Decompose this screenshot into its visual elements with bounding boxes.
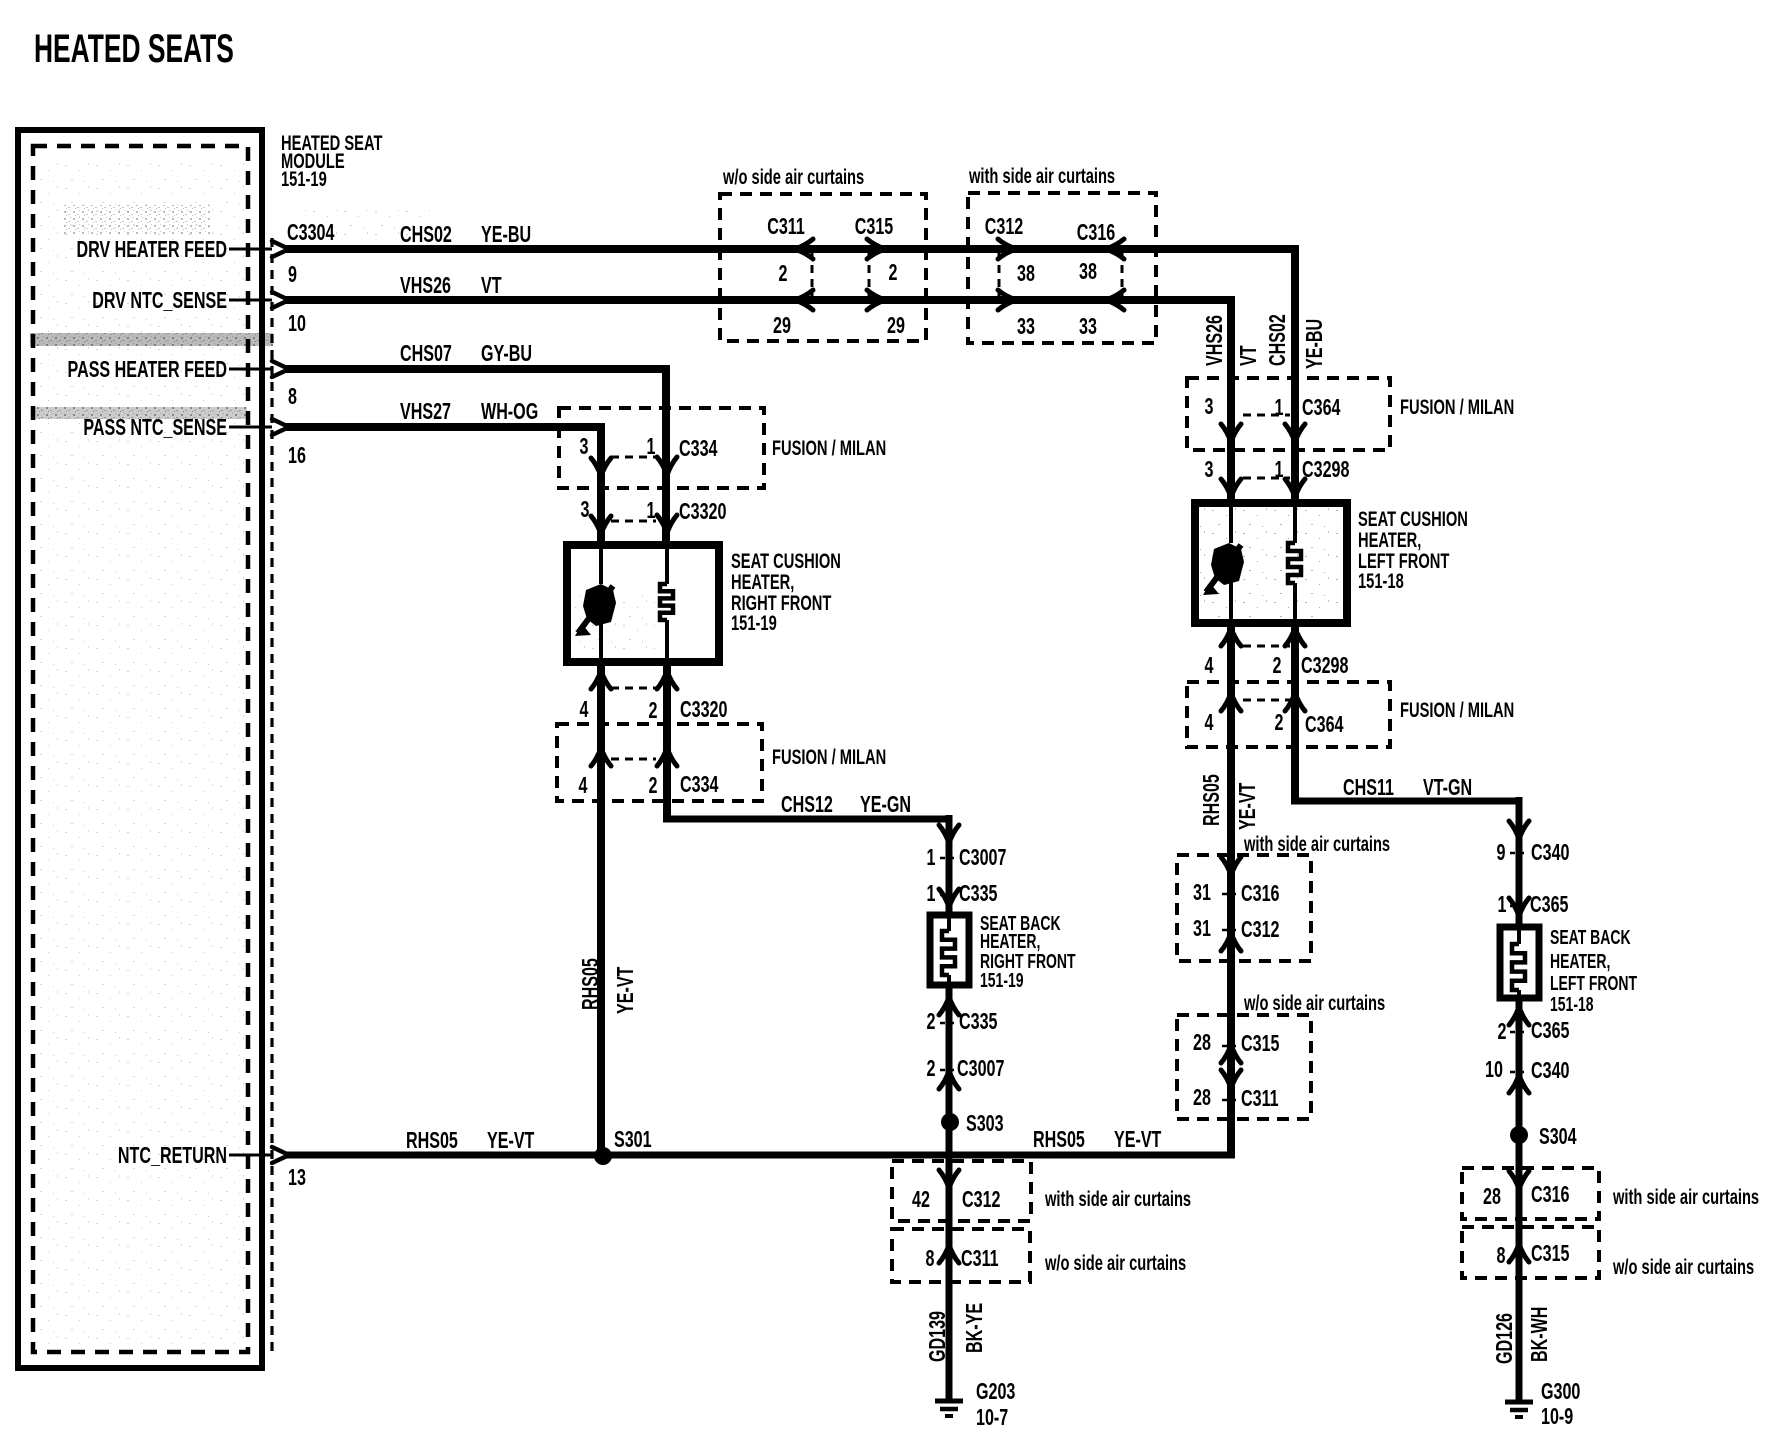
svg-text:C311: C311: [1241, 1086, 1279, 1111]
connector C315/C311 dashed box: [1177, 1015, 1311, 1119]
svg-text:2: 2: [649, 698, 658, 723]
svg-text:42: 42: [912, 1187, 930, 1212]
svg-text:1: 1: [1275, 395, 1284, 420]
connector C335 row tick (lower): [940, 1022, 958, 1025]
ground G300 label: [1541, 1379, 1580, 1429]
svg-text:C3298: C3298: [1302, 457, 1349, 482]
ground G300 symbol: [1505, 1400, 1533, 1405]
svg-text:CHS02: CHS02: [400, 222, 452, 247]
connector C315 arrow (RHS05): [1221, 1045, 1241, 1063]
connector C3007 row tick (lower): [940, 1069, 958, 1072]
connector C364 row dashes (lower): [1243, 699, 1290, 702]
svg-text:C316: C316: [1077, 220, 1115, 245]
svg-text:31: 31: [1193, 916, 1211, 941]
svg-text:WH-OG: WH-OG: [481, 399, 538, 424]
svg-text:G203: G203: [976, 1379, 1015, 1404]
svg-text:151-18: 151-18: [1550, 992, 1594, 1015]
svg-text:YE-VT: YE-VT: [487, 1128, 534, 1153]
svg-text:YE-VT: YE-VT: [613, 967, 638, 1014]
svg-text:1: 1: [1498, 892, 1507, 917]
module pin 16 PASS NTC_SENSE lead: [83, 415, 272, 440]
svg-text:C315: C315: [855, 214, 893, 239]
connector C3298 row dashes: [1243, 477, 1290, 480]
svg-text:BK-YE: BK-YE: [962, 1303, 987, 1353]
seat cushion heater LF thermistor element: [1211, 543, 1244, 585]
svg-text:YE-BU: YE-BU: [481, 222, 531, 247]
svg-text:C334: C334: [679, 436, 717, 461]
seat back heater RF wire stubs: [947, 915, 951, 931]
module label HEATED SEAT MODULE 151-19: [281, 131, 382, 190]
svg-text:C315: C315: [1241, 1031, 1279, 1056]
svg-text:RHS05: RHS05: [406, 1128, 458, 1153]
svg-text:C315: C315: [1531, 1241, 1569, 1266]
svg-text:C335: C335: [959, 881, 997, 906]
seat cushion heater left front box: [1195, 503, 1347, 623]
connector C340 row tick: [1510, 852, 1528, 855]
splice S301: [594, 1147, 612, 1165]
connector C340 arrow (upper): [1509, 821, 1529, 839]
connector C365 row tick (lower): [1510, 1031, 1528, 1034]
svg-text:151-18: 151-18: [1358, 569, 1404, 592]
connector C312 arrow (RHS05): [1221, 933, 1241, 951]
svg-text:C312: C312: [985, 214, 1023, 239]
svg-text:NTC_RETURN: NTC_RETURN: [118, 1143, 227, 1168]
svg-text:w/o side air curtains: w/o side air curtains: [1612, 1255, 1754, 1278]
scan noise bands (artifact): [30, 160, 1342, 1345]
svg-text:29: 29: [773, 313, 791, 338]
svg-text:151-19: 151-19: [980, 968, 1024, 991]
svg-text:CHS02: CHS02: [1265, 314, 1290, 366]
connector C311 arrow wire VHS26: [795, 290, 813, 310]
svg-text:4: 4: [1205, 653, 1214, 678]
connector C3298 arrow right wire: [1285, 479, 1305, 497]
connector C3298 arrow right wire (lower): [1285, 628, 1305, 646]
svg-text:C364: C364: [1302, 395, 1340, 420]
connector C334 row dashes: [611, 456, 656, 459]
connector C364 arrow left wire (lower): [1221, 693, 1241, 711]
svg-text:PASS HEATER FEED: PASS HEATER FEED: [68, 357, 227, 382]
seat cushion heater RF resistor element: [660, 584, 673, 620]
splice S303: [941, 1113, 959, 1131]
svg-text:w/o side air curtains: w/o side air curtains: [1243, 991, 1385, 1014]
wire VHS27 WH-OG vertical drop: [597, 423, 605, 547]
wire RHS05 YE-VT bottom run (NTC_RETURN): [285, 1152, 1235, 1159]
connector C316 arrow wire CHS02: [1106, 239, 1124, 259]
svg-text:G300: G300: [1541, 1379, 1580, 1404]
svg-text:28: 28: [1193, 1030, 1211, 1055]
svg-text:9: 9: [288, 262, 297, 287]
heated seat module box: [18, 130, 262, 1368]
connector C334 arrow left wire (lower): [591, 748, 611, 766]
svg-text:9: 9: [1497, 840, 1506, 865]
svg-text:2: 2: [927, 1009, 936, 1034]
seat cushion heater LF resistor element: [1288, 543, 1301, 583]
connector C3320 arrow left wire: [591, 516, 611, 534]
connector C365 arrow (lower): [1509, 1007, 1529, 1025]
svg-text:VT: VT: [1236, 345, 1261, 366]
connector C316 row tick: [1222, 893, 1240, 896]
svg-text:HEATER,: HEATER,: [1358, 528, 1421, 551]
connector C3320 arrow right wire: [657, 515, 677, 533]
label SEAT CUSHION HEATER, RIGHT FRONT 151-19: [731, 549, 841, 634]
seat cushion heater RF internal wire (right): [665, 545, 669, 584]
connector C316 dashed box (LF ground branch): [1462, 1168, 1599, 1219]
connector C335 row tick: [940, 894, 958, 897]
splice S304: [1510, 1126, 1528, 1144]
svg-text:4: 4: [580, 697, 589, 722]
svg-text:S301: S301: [614, 1127, 652, 1152]
svg-text:with side air curtains: with side air curtains: [1612, 1185, 1759, 1208]
svg-text:2: 2: [927, 1056, 936, 1081]
svg-text:LEFT FRONT: LEFT FRONT: [1550, 971, 1637, 994]
connector C340 row tick (lower): [1510, 1071, 1528, 1074]
svg-text:C316: C316: [1531, 1182, 1569, 1207]
svg-text:10: 10: [1485, 1057, 1503, 1082]
wire seat back heater RF return vertical: [946, 985, 953, 1401]
svg-text:VT-GN: VT-GN: [1423, 775, 1472, 800]
svg-text:8: 8: [288, 384, 297, 409]
svg-text:2: 2: [1275, 710, 1284, 735]
svg-text:C311: C311: [767, 214, 805, 239]
svg-text:C3320: C3320: [679, 499, 726, 524]
seat cushion heater LF internal wire (pin1-2 side): [1293, 503, 1297, 543]
svg-text:28: 28: [1193, 1085, 1211, 1110]
wire VHS26 VT horizontal run: [285, 296, 1235, 304]
connector C311 arrow (RHS05): [1221, 1070, 1241, 1088]
seat cushion heater right front box: [567, 545, 719, 662]
connector C312 row tick: [1222, 929, 1240, 932]
seat back heater LF wire stubs: [1517, 927, 1521, 944]
svg-text:RHS05: RHS05: [578, 958, 603, 1010]
connector C340 arrow (lower): [1509, 1075, 1529, 1093]
svg-text:C3007: C3007: [957, 1056, 1004, 1081]
svg-text:GD126: GD126: [1492, 1313, 1517, 1364]
wire CHS07 GY-BU vertical drop: [662, 365, 670, 547]
svg-text:2: 2: [889, 260, 898, 285]
svg-text:4: 4: [1205, 710, 1214, 735]
connector C365 row tick: [1510, 905, 1528, 908]
module pin 13 NTC_RETURN lead: [118, 1143, 272, 1168]
connector C334 arrow right wire: [657, 457, 677, 475]
svg-text:VHS26: VHS26: [400, 273, 451, 298]
connector C364 dashed box (upper, FUSION/MILAN): [1187, 378, 1390, 450]
svg-text:BK-WH: BK-WH: [1527, 1307, 1552, 1362]
wire CHS11 VT-GN vertical+horizontal run: [1291, 623, 1299, 801]
svg-text:2: 2: [1273, 653, 1282, 678]
connector C3320 row dashes (lower): [611, 687, 656, 690]
svg-text:VHS26: VHS26: [1202, 315, 1227, 366]
module pin 8 exit arrow: [272, 361, 289, 377]
svg-text:33: 33: [1079, 314, 1097, 339]
svg-text:3: 3: [1205, 457, 1214, 482]
svg-text:C365: C365: [1531, 1018, 1569, 1043]
connector C334 arrow left wire: [591, 458, 611, 476]
svg-text:C3007: C3007: [959, 845, 1006, 870]
connector C312 arrow wire VHS26: [998, 290, 1016, 310]
connector C312 arrow wire CHS02: [998, 239, 1016, 259]
svg-text:GD139: GD139: [925, 1311, 950, 1362]
svg-text:10-7: 10-7: [976, 1405, 1008, 1430]
connector C315 arrow wire CHS02: [867, 239, 885, 259]
svg-text:C312: C312: [962, 1187, 1000, 1212]
connector C3298 row dashes (lower): [1243, 645, 1290, 648]
module pin 16 exit arrow: [272, 419, 289, 435]
connector C316 boundary dash: [1121, 251, 1124, 298]
connector C335 arrow (lower): [939, 997, 959, 1015]
connector C312 boundary dash: [998, 251, 1001, 298]
svg-text:C340: C340: [1531, 840, 1569, 865]
svg-text:151-19: 151-19: [281, 167, 327, 190]
svg-text:1: 1: [927, 845, 936, 870]
svg-text:DRV NTC_SENSE: DRV NTC_SENSE: [92, 288, 227, 313]
svg-text:33: 33: [1017, 314, 1035, 339]
label SEAT CUSHION HEATER, LEFT FRONT 151-18: [1358, 507, 1468, 592]
svg-text:C3304: C3304: [287, 220, 334, 245]
svg-text:C312: C312: [1241, 917, 1279, 942]
svg-text:w/o side air curtains: w/o side air curtains: [722, 165, 864, 188]
svg-text:RHS05: RHS05: [1033, 1127, 1085, 1152]
svg-text:28: 28: [1483, 1184, 1501, 1209]
svg-text:FUSION / MILAN: FUSION / MILAN: [1400, 698, 1514, 721]
svg-text:YE-GN: YE-GN: [860, 792, 911, 817]
module pin 10 DRV NTC_SENSE lead: [92, 288, 272, 313]
connector C3298 arrow left wire (lower): [1221, 628, 1241, 646]
svg-text:C335: C335: [959, 1009, 997, 1034]
connector C364 dashed box (lower, FUSION/MILAN): [1187, 682, 1390, 747]
svg-text:10-9: 10-9: [1541, 1404, 1573, 1429]
connector C3007 row tick: [940, 857, 958, 860]
svg-text:VT: VT: [481, 273, 502, 298]
wire VHS26 VT vertical drop: [1227, 296, 1235, 503]
svg-text:SEAT CUSHION: SEAT CUSHION: [731, 549, 841, 572]
svg-text:3: 3: [580, 434, 589, 459]
connector C3320 arrow right wire (lower): [657, 671, 677, 689]
svg-text:CHS07: CHS07: [400, 341, 452, 366]
svg-text:C365: C365: [1530, 892, 1568, 917]
wire CHS02 YE-BU horizontal run: [285, 245, 1299, 253]
svg-text:CHS12: CHS12: [781, 792, 833, 817]
svg-text:1: 1: [927, 881, 936, 906]
connector C364 arrow right wire (lower): [1285, 693, 1305, 711]
svg-text:FUSION / MILAN: FUSION / MILAN: [772, 436, 886, 459]
svg-text:16: 16: [288, 443, 306, 468]
module pin 13 exit arrow: [272, 1147, 289, 1163]
svg-text:C364: C364: [1305, 712, 1343, 737]
connector C335 arrow (upper): [939, 889, 959, 907]
wire RHS05 YE-VT vertical (left front return): [1227, 623, 1235, 1155]
connector C365 arrow (upper): [1509, 898, 1529, 916]
svg-text:38: 38: [1079, 259, 1097, 284]
svg-text:with side air curtains: with side air curtains: [1243, 832, 1390, 855]
seat cushion heater LF internal wire (pin3-4 side): [1229, 503, 1233, 543]
label SEAT BACK HEATER, RIGHT FRONT 151-19: [980, 911, 1076, 991]
wire VHS27 WH-OG horizontal run: [285, 423, 605, 431]
svg-text:VHS27: VHS27: [400, 399, 451, 424]
connector C311 boundary dash: [811, 251, 814, 298]
svg-text:C340: C340: [1531, 1058, 1569, 1083]
connector C312 arrow (ground branch): [939, 1170, 959, 1188]
svg-text:SEAT CUSHION: SEAT CUSHION: [1358, 507, 1468, 530]
svg-text:4: 4: [579, 773, 588, 798]
connector C364 arrow right wire: [1285, 424, 1305, 442]
svg-text:RHS05: RHS05: [1199, 774, 1224, 826]
svg-text:YE-BU: YE-BU: [1302, 319, 1327, 369]
svg-text:S304: S304: [1539, 1124, 1577, 1149]
module pin 8 PASS HEATER FEED lead: [68, 357, 272, 382]
svg-text:C334: C334: [680, 772, 718, 797]
svg-text:with side air curtains: with side air curtains: [968, 164, 1115, 187]
connector C316 arrow (LF ground branch): [1509, 1171, 1529, 1189]
wire CHS12 YE-GN run: [663, 662, 671, 819]
svg-text:FUSION / MILAN: FUSION / MILAN: [1400, 395, 1514, 418]
heated seat module inner dashed outline: [33, 146, 248, 1352]
svg-text:YE-VT: YE-VT: [1114, 1127, 1161, 1152]
svg-text:HEATER,: HEATER,: [731, 570, 794, 593]
seat back heater RF element: [942, 931, 955, 975]
svg-text:DRV HEATER FEED: DRV HEATER FEED: [76, 237, 227, 262]
connector C3007 arrow (upper): [939, 825, 959, 843]
connector C315 arrow wire VHS26: [867, 290, 885, 310]
svg-text:HEATER,: HEATER,: [1550, 949, 1610, 972]
svg-text:C311: C311: [961, 1246, 999, 1271]
svg-text:8: 8: [1497, 1243, 1506, 1268]
wire seat back heater LF return vertical: [1516, 998, 1523, 1402]
with side air curtains dashed box: [968, 193, 1156, 343]
svg-text:C3320: C3320: [680, 697, 727, 722]
seat back heater right front box: [930, 915, 969, 985]
connector C311 dashed box (ground branch): [892, 1229, 1030, 1282]
svg-text:S303: S303: [966, 1111, 1004, 1136]
connector C334 arrow right wire (lower): [657, 748, 677, 766]
svg-text:10: 10: [288, 311, 306, 336]
svg-text:CHS11: CHS11: [1343, 775, 1394, 800]
connector C315 arrow (LF ground branch): [1509, 1244, 1529, 1262]
svg-text:8: 8: [926, 1246, 935, 1271]
svg-text:HEATED SEATS: HEATED SEATS: [34, 27, 234, 72]
connector C315 dashed box (LF ground branch): [1462, 1227, 1599, 1278]
svg-text:31: 31: [1193, 880, 1211, 905]
w/o side air curtains dashed box: [720, 194, 926, 341]
svg-text:29: 29: [887, 313, 905, 338]
connector C311 arrow wire CHS02: [795, 239, 813, 259]
svg-text:13: 13: [288, 1165, 306, 1190]
label SEAT BACK HEATER, LEFT FRONT 151-18: [1550, 925, 1637, 1015]
svg-text:38: 38: [1017, 261, 1035, 286]
svg-text:C316: C316: [1241, 881, 1279, 906]
svg-text:with side air curtains: with side air curtains: [1044, 1187, 1191, 1210]
connector C3007 arrow (lower): [939, 1071, 959, 1089]
svg-text:YE-VT: YE-VT: [1235, 783, 1260, 830]
svg-text:SEAT BACK: SEAT BACK: [1550, 925, 1631, 948]
connector C364 arrow left wire: [1221, 424, 1241, 442]
seat back heater left front box: [1500, 927, 1539, 998]
connector C312 dashed box (ground branch): [892, 1161, 1031, 1221]
connector C3304 dashed boundary line: [270, 238, 273, 1352]
ground G203 symbol: [935, 1399, 963, 1404]
connector C334 row dashes (lower): [611, 758, 656, 761]
svg-text:2: 2: [779, 261, 788, 286]
svg-text:151-19: 151-19: [731, 611, 777, 634]
wire RHS05 YE-VT vertical (right front return): [597, 662, 605, 1155]
connector C316 arrow wire VHS26: [1106, 290, 1124, 310]
connector C311 arrow (ground branch): [939, 1245, 959, 1263]
module pin 9 exit arrow: [272, 241, 289, 257]
svg-text:GY-BU: GY-BU: [481, 341, 532, 366]
connector C315 row tick: [1222, 1045, 1240, 1048]
connector C334 dashed box (lower, FUSION/MILAN): [557, 724, 762, 801]
module pin 9 DRV HEATER FEED lead: [76, 237, 272, 262]
seat cushion heater RF thermistor element: [583, 584, 616, 626]
seat back heater LF element: [1512, 944, 1525, 990]
ground G203 label: [976, 1379, 1015, 1430]
svg-text:FUSION / MILAN: FUSION / MILAN: [772, 745, 886, 768]
svg-text:2: 2: [1498, 1019, 1507, 1044]
svg-text:3: 3: [581, 497, 590, 522]
svg-text:w/o side air curtains: w/o side air curtains: [1044, 1251, 1186, 1274]
svg-text:3: 3: [1205, 394, 1214, 419]
connector C3320 arrow left wire (lower): [591, 671, 611, 689]
connector C316/C312 dashed box: [1177, 855, 1311, 961]
connector C364 row dashes: [1243, 414, 1290, 417]
seat cushion heater RF internal wire (left): [599, 545, 603, 584]
svg-text:PASS NTC_SENSE: PASS NTC_SENSE: [83, 415, 227, 440]
svg-text:C3298: C3298: [1301, 653, 1348, 678]
connector C3320 row dashes: [611, 520, 656, 523]
module pin 10 exit arrow: [272, 292, 289, 308]
connector C315 boundary dash: [868, 251, 871, 298]
connector C3298 arrow left wire: [1221, 479, 1241, 497]
connector C334 dashed box (upper, FUSION/MILAN): [559, 408, 764, 488]
connector C311 row tick: [1222, 1099, 1240, 1102]
wire CHS02 YE-BU vertical drop: [1291, 245, 1299, 503]
svg-text:2: 2: [649, 773, 658, 798]
connector C316 arrow (RHS05): [1221, 857, 1241, 875]
wire CHS07 GY-BU horizontal run: [285, 365, 670, 373]
